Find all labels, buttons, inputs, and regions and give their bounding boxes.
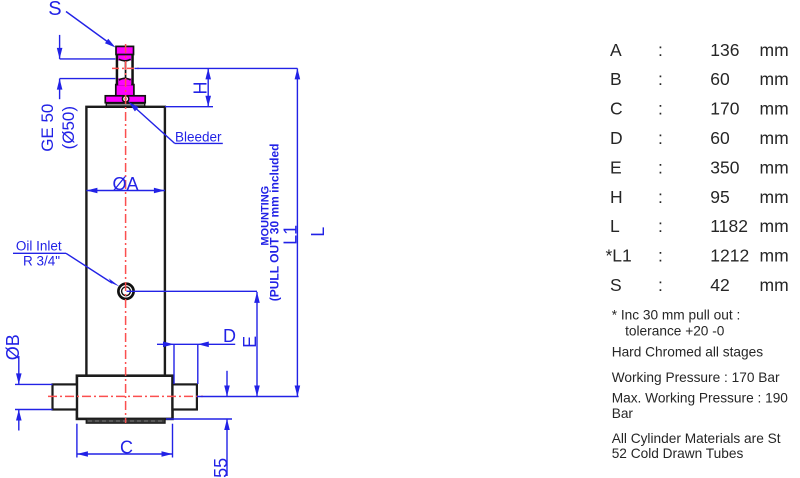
svg-text::: : (658, 275, 663, 295)
svg-text:mm: mm (760, 99, 789, 119)
svg-text::: : (658, 157, 663, 177)
svg-text:Bleeder: Bleeder (175, 130, 222, 145)
svg-text:1212: 1212 (710, 246, 749, 266)
svg-text:E: E (610, 157, 622, 177)
svg-text:60: 60 (710, 69, 730, 89)
svg-text:1182: 1182 (710, 216, 748, 236)
svg-text:95: 95 (710, 187, 729, 207)
svg-text:350: 350 (710, 157, 739, 177)
svg-text:L1: L1 (280, 225, 300, 245)
svg-text:136: 136 (710, 40, 739, 60)
svg-text:mm: mm (760, 69, 789, 89)
svg-text:E: E (240, 336, 260, 348)
svg-text:GE 50: GE 50 (38, 104, 57, 152)
svg-text:A: A (610, 40, 622, 60)
svg-text:Hard Chromed all stages: Hard Chromed all stages (612, 344, 764, 359)
svg-text:S: S (48, 0, 61, 20)
svg-text:L: L (308, 227, 328, 237)
svg-text:* Inc 30 mm pull out :: * Inc 30 mm pull out : (612, 308, 741, 323)
svg-text:Max. Working Pressure : 190: Max. Working Pressure : 190 (612, 391, 789, 406)
svg-text:mm: mm (760, 246, 789, 266)
svg-text:R 3/4": R 3/4" (23, 254, 60, 269)
svg-text:42: 42 (710, 275, 729, 295)
svg-text:D: D (223, 326, 236, 346)
svg-text:C: C (610, 99, 623, 119)
svg-text:H: H (610, 187, 623, 207)
svg-text:(PULL OUT 30 mm included: (PULL OUT 30 mm included (268, 143, 282, 301)
svg-text:S: S (610, 275, 622, 295)
svg-text:Working Pressure : 170 Bar: Working Pressure : 170 Bar (612, 370, 780, 385)
svg-text:ØA: ØA (113, 174, 139, 194)
svg-text:L: L (610, 216, 620, 236)
svg-text:B: B (610, 69, 622, 89)
svg-text:170: 170 (710, 99, 739, 119)
svg-text::: : (658, 99, 663, 119)
svg-text:Oil Inlet: Oil Inlet (16, 239, 62, 254)
svg-text:60: 60 (710, 128, 730, 148)
svg-text:*L1: *L1 (606, 246, 632, 266)
svg-text:mm: mm (760, 275, 789, 295)
svg-text:tolerance +20 -0: tolerance +20 -0 (625, 324, 725, 339)
svg-text:(Ø50): (Ø50) (59, 106, 78, 149)
svg-text:All Cylinder Materials are St: All Cylinder Materials are St (612, 431, 781, 446)
svg-text:52 Cold Drawn Tubes: 52 Cold Drawn Tubes (612, 446, 744, 461)
svg-text::: : (658, 69, 663, 89)
svg-text:mm: mm (760, 216, 789, 236)
svg-text:mm: mm (760, 187, 789, 207)
svg-text:mm: mm (760, 40, 789, 60)
svg-text:mm: mm (760, 157, 789, 177)
svg-text:H: H (191, 82, 211, 95)
svg-text:55: 55 (211, 458, 231, 478)
svg-text:ØB: ØB (3, 334, 23, 360)
svg-text:mm: mm (760, 128, 789, 148)
svg-text::: : (658, 246, 663, 266)
svg-text:D: D (610, 128, 623, 148)
svg-text:C: C (120, 438, 133, 458)
svg-text::: : (658, 187, 663, 207)
svg-text:Bar: Bar (612, 406, 634, 421)
svg-text::: : (658, 216, 663, 236)
svg-text::: : (658, 128, 663, 148)
svg-text::: : (658, 40, 663, 60)
